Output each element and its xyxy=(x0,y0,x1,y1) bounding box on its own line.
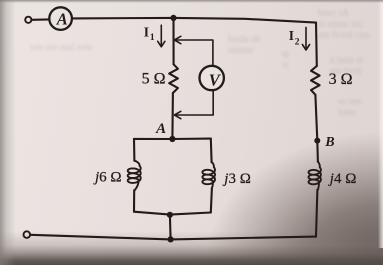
wire middle branch upper xyxy=(172,18,174,64)
node loop bottom junction xyxy=(167,212,173,218)
node top junction xyxy=(170,15,176,21)
label j4 ohm xyxy=(328,171,357,187)
wire parallel loop top xyxy=(134,138,211,140)
svg-text:B: B xyxy=(324,135,334,150)
wire loop left upper xyxy=(133,139,135,161)
label node B xyxy=(324,135,334,150)
svg-text:A: A xyxy=(56,10,68,29)
node A xyxy=(169,136,175,142)
ammeter A xyxy=(49,7,72,30)
inductor j4 ohm xyxy=(309,162,321,191)
wire bottom rail xyxy=(30,235,316,240)
node bottom rail junction xyxy=(168,236,174,242)
wire parallel loop bottom xyxy=(134,212,211,215)
terminal top-left input xyxy=(25,17,31,23)
wire node B to inductor xyxy=(316,141,319,162)
wire loop right lower xyxy=(211,188,212,212)
resistor 5 ohm xyxy=(169,64,178,93)
label 5 ohm xyxy=(142,70,166,87)
voltmeter V xyxy=(200,66,224,90)
inductor j6 ohm xyxy=(128,161,141,191)
label j6 ohm xyxy=(93,169,122,185)
wire terminal to ammeter xyxy=(32,18,50,20)
wire loop to bottom rail xyxy=(169,215,172,240)
svg-text:2: 2 xyxy=(295,38,300,48)
svg-text:j4 Ω: j4 Ω xyxy=(328,171,357,187)
wire right branch middle xyxy=(315,95,317,141)
svg-text:I: I xyxy=(144,25,149,40)
svg-text:A: A xyxy=(155,121,166,137)
node B xyxy=(314,138,320,144)
resistor 3 ohm xyxy=(311,66,320,95)
svg-text:j6 Ω: j6 Ω xyxy=(93,169,122,185)
label 3 ohm xyxy=(329,71,353,88)
wire loop right upper xyxy=(210,139,213,163)
wire top rail right xyxy=(174,18,317,23)
wire middle branch lower xyxy=(171,93,174,139)
svg-text:3 Ω: 3 Ω xyxy=(329,71,353,88)
label j3 ohm xyxy=(222,171,251,187)
terminal bottom-left input xyxy=(24,231,31,238)
svg-text:I: I xyxy=(289,28,294,43)
label I1 xyxy=(144,25,155,43)
label node A xyxy=(155,121,166,137)
arrow I1 current direction xyxy=(158,25,165,47)
svg-text:j3 Ω: j3 Ω xyxy=(222,171,251,187)
svg-text:5 Ω: 5 Ω xyxy=(142,70,166,87)
wire voltmeter bottom lead xyxy=(174,90,213,118)
arrow I2 current direction xyxy=(302,27,309,50)
label I2 xyxy=(289,28,300,47)
inductor j3 ohm xyxy=(202,162,215,189)
wire right branch upper xyxy=(315,23,318,66)
wire right branch lower xyxy=(316,190,317,237)
svg-text:1: 1 xyxy=(150,33,155,43)
wire ammeter to top junction xyxy=(72,17,174,20)
wire voltmeter top lead xyxy=(174,36,213,65)
wire loop left lower xyxy=(133,190,135,212)
